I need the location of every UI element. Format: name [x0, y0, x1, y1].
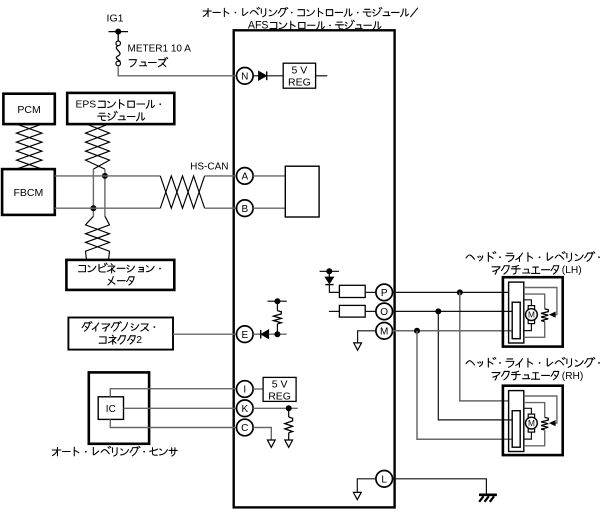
actuator RH connector outer [509, 391, 524, 452]
junction dot O branch [435, 308, 441, 314]
actuator LH connector outer [509, 282, 524, 343]
junction dot M branch [414, 328, 420, 334]
wire O branch to RH actuator [438, 311, 512, 420]
svg-text:K: K [241, 404, 248, 415]
svg-text:B: B [241, 204, 248, 215]
wire IC to terminal I [110, 389, 236, 397]
svg-text:REG: REG [288, 77, 311, 89]
terminal P [376, 284, 393, 301]
wire stub to resistor R4 [329, 310, 340, 312]
svg-text:IG1: IG1 [107, 13, 124, 25]
svg-text:(LH): (LH) [562, 265, 582, 276]
wire D3 to resistor R3 [329, 285, 339, 293]
wire twist to terminal B [205, 207, 237, 209]
wire P branch to RH actuator [460, 292, 509, 401]
terminal A [237, 168, 254, 185]
actuator LH connector inner [512, 302, 520, 339]
node 5V stub at R1 [268, 298, 287, 304]
diagnosis connector 2 box [68, 318, 173, 350]
wire CAN-H FBCM to twist [55, 175, 161, 177]
wire twist to terminal A [205, 175, 237, 177]
diode D1 [259, 71, 267, 80]
resistor R4 block [339, 305, 365, 317]
5V regulator U2 [283, 63, 315, 88]
CAN transceiver block [285, 166, 319, 217]
label auto leveling sensor [52, 446, 177, 456]
svg-text:5 V: 5 V [272, 378, 288, 390]
actuator RH connector inner [512, 411, 520, 448]
wire P to LH actuator [393, 291, 509, 293]
wire R4 to terminal O [365, 310, 376, 312]
wire N to diode [253, 75, 259, 77]
wire LH motor bottom [524, 324, 532, 331]
svg-text:M: M [528, 310, 535, 320]
motor LH [526, 306, 538, 324]
terminal B [237, 200, 254, 217]
label HS-CAN [190, 161, 228, 172]
wire EPS CAN verticals [93, 169, 105, 216]
wire IC to terminal K [124, 407, 237, 409]
AFS control module box U1 [234, 30, 395, 507]
EPS control module box [67, 93, 174, 124]
label actuator LH [466, 252, 600, 276]
resistor R2 pulldown [285, 408, 293, 440]
resistor R1 pullup [274, 301, 282, 334]
svg-text:M: M [380, 326, 388, 337]
svg-text:N: N [241, 71, 248, 82]
headlight leveling actuator LH box [503, 277, 563, 346]
headlight leveling actuator RH box [503, 386, 563, 455]
wire M internal to ground [358, 331, 376, 343]
terminal C [237, 419, 254, 436]
wire D2 to stub [269, 333, 287, 335]
wire diode to 5V REG [267, 75, 284, 77]
wire R3 to terminal P [365, 291, 376, 293]
wire CAN-L FBCM to twist [55, 207, 161, 209]
svg-text:(RH): (RH) [562, 371, 584, 382]
twisted pair EPS to CAN bus [86, 124, 110, 169]
terminal K [237, 400, 254, 417]
wire A to CAN block [253, 175, 285, 177]
wire diagnosis to terminal E [173, 333, 236, 335]
fuse METER1 10A [116, 41, 121, 66]
wire RH motor top [524, 408, 532, 414]
junction dot CAN-H [102, 173, 108, 179]
terminal M [376, 323, 393, 340]
FBCM box [2, 169, 55, 215]
svg-text:EPS: EPS [76, 100, 97, 111]
wire RH pot bottom [524, 430, 545, 446]
svg-text:L: L [381, 474, 387, 485]
svg-text:A: A [241, 172, 248, 183]
svg-text:O: O [380, 307, 388, 318]
diode D3 [325, 271, 333, 284]
node 5V stub at D3 [320, 268, 339, 274]
terminal I [237, 381, 254, 398]
wire B to CAN block [253, 207, 285, 209]
wire M branch to RH actuator [417, 331, 512, 440]
wire LH pot top [524, 294, 545, 309]
PCM box [3, 94, 54, 124]
wire I to 5V REG2 [253, 388, 263, 390]
svg-text:M: M [528, 418, 535, 428]
wire LH pot bottom [524, 322, 545, 338]
wire fuse to terminal N [118, 66, 236, 76]
label fuse value [128, 44, 192, 67]
chassis ground [479, 495, 497, 502]
wire IG1 to fuse [117, 32, 119, 42]
wire L internal to ground [357, 479, 376, 493]
5V regulator U3 [263, 377, 296, 402]
junction dot K node [286, 405, 292, 411]
auto leveling sensor box [89, 372, 149, 443]
terminal E [237, 326, 254, 343]
label: module title line1 [203, 7, 418, 16]
wire M to LH actuator [393, 330, 513, 332]
svg-text:P: P [381, 288, 388, 299]
ground arrow L [353, 492, 361, 499]
potentiometer LH [541, 309, 548, 322]
node IG1 junction dot [115, 29, 121, 35]
svg-text:FBCM: FBCM [14, 187, 44, 199]
svg-text:I: I [243, 385, 246, 396]
wire LH wiper [524, 288, 557, 318]
diode D2 [261, 330, 269, 339]
label actuator RH [466, 357, 600, 381]
resistor R3 block [339, 285, 365, 297]
twisted pair CAN bus to combination meter [86, 216, 110, 260]
svg-text:METER1 10 A: METER1 10 A [128, 44, 192, 55]
wire RH pot top [524, 403, 545, 418]
wire RH wiper [524, 396, 557, 426]
junction dot CAN-L [90, 205, 96, 211]
svg-text:E: E [241, 330, 248, 341]
wire L to chassis ground [393, 479, 487, 494]
label IG1 [107, 13, 124, 25]
svg-text:IC: IC [106, 404, 116, 415]
svg-text:HS-CAN: HS-CAN [190, 161, 228, 172]
junction dot E node [274, 331, 280, 337]
combination meter box [66, 260, 174, 290]
wire K internal [253, 407, 298, 409]
svg-text:PCM: PCM [17, 104, 40, 116]
twisted pair HS-CAN [160, 176, 204, 208]
wire RH motor bottom [524, 432, 532, 439]
wire 5V REG output stub [316, 75, 328, 77]
wire O to LH actuator [393, 310, 513, 312]
svg-text:5 V: 5 V [292, 65, 308, 77]
wire C internal [253, 428, 271, 441]
twisted pair PCM-FBCM [17, 124, 43, 169]
terminal N [237, 68, 254, 85]
label: module title line2 [248, 20, 381, 32]
wire IC to terminal C [110, 419, 236, 427]
sensor IC block [98, 397, 123, 420]
wire LH motor top [524, 300, 532, 306]
wire E to diode D2 [253, 333, 260, 335]
terminal L [376, 471, 393, 488]
motor RH [526, 414, 538, 432]
potentiometer RH [541, 417, 548, 430]
ground arrow C [267, 440, 275, 447]
svg-text:C: C [241, 423, 248, 434]
node IG1 bar [109, 31, 129, 33]
svg-text:REG: REG [268, 390, 291, 402]
terminal O [376, 303, 393, 320]
ground arrow M [354, 343, 362, 350]
ground arrow R2 [285, 440, 293, 447]
junction dot P branch [457, 289, 463, 295]
svg-text:2: 2 [136, 335, 142, 346]
